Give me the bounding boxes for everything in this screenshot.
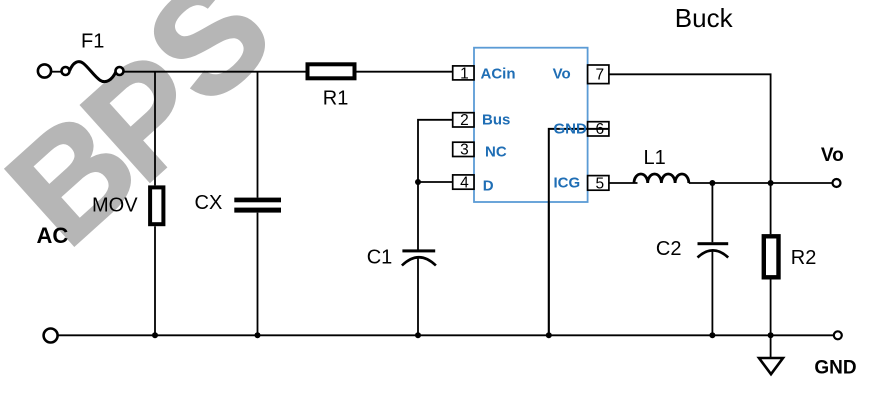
svg-text:5: 5 xyxy=(595,175,604,192)
svg-text:CX: CX xyxy=(195,192,223,214)
svg-text:AC: AC xyxy=(37,223,69,248)
svg-text:C2: C2 xyxy=(656,238,682,260)
svg-text:6: 6 xyxy=(595,121,604,138)
svg-text:C1: C1 xyxy=(367,247,393,269)
svg-text:7: 7 xyxy=(595,67,604,84)
svg-text:Bus: Bus xyxy=(482,112,510,129)
svg-text:2: 2 xyxy=(460,112,469,129)
svg-text:Buck: Buck xyxy=(675,3,734,33)
svg-text:ACin: ACin xyxy=(481,66,516,83)
svg-text:MOV: MOV xyxy=(92,195,138,217)
svg-text:L1: L1 xyxy=(644,147,666,169)
svg-text:4: 4 xyxy=(460,174,469,191)
svg-text:F1: F1 xyxy=(81,30,104,52)
svg-text:GND: GND xyxy=(814,358,856,379)
svg-text:NC: NC xyxy=(485,144,507,161)
svg-text:ICG: ICG xyxy=(554,175,581,192)
svg-text:3: 3 xyxy=(460,142,469,159)
svg-text:Vo: Vo xyxy=(821,145,844,166)
svg-text:GND: GND xyxy=(554,121,588,138)
svg-text:D: D xyxy=(483,178,494,195)
svg-text:1: 1 xyxy=(460,65,469,82)
svg-text:R2: R2 xyxy=(791,247,817,269)
svg-text:R1: R1 xyxy=(323,88,349,110)
svg-text:Vo: Vo xyxy=(553,66,571,83)
